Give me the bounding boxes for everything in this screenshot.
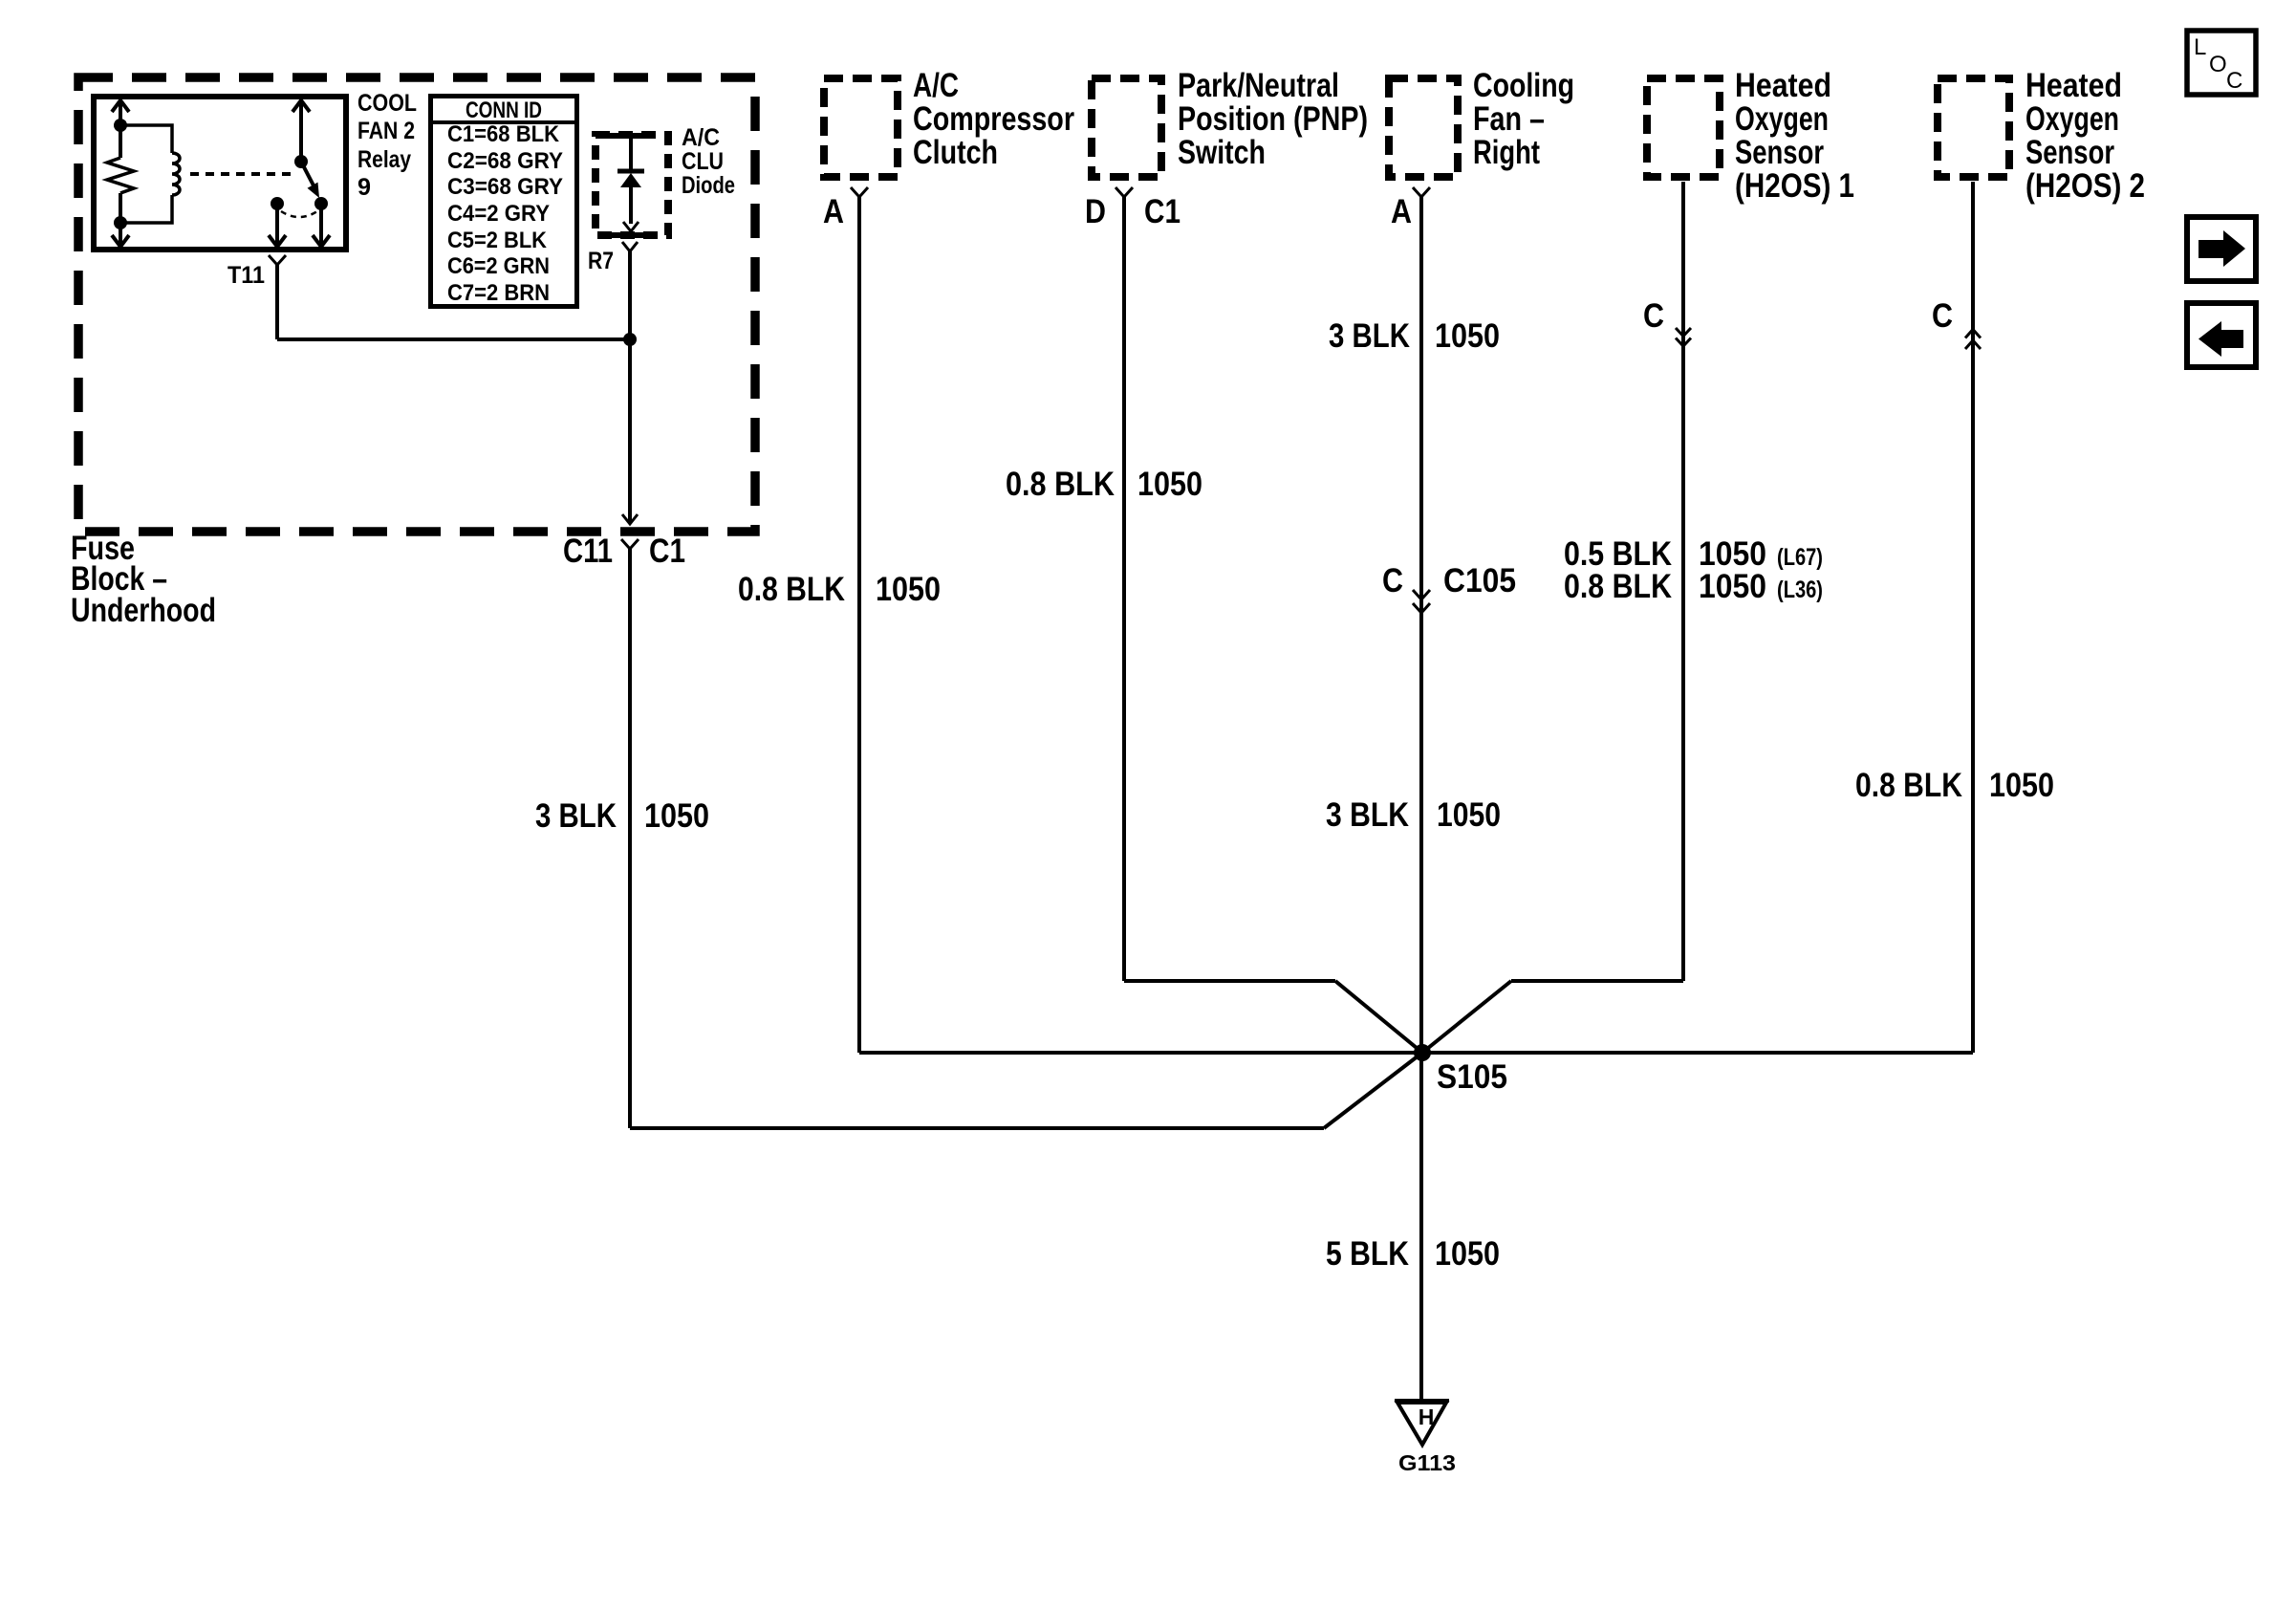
svg-text:0.8 BLK: 0.8 BLK <box>1564 568 1672 605</box>
svg-text:Relay: Relay <box>357 146 411 173</box>
resistor in relay <box>107 158 134 193</box>
connector C105 chevrons <box>1413 590 1430 613</box>
svg-text:Switch: Switch <box>1178 134 1266 171</box>
svg-text:3 BLK: 3 BLK <box>535 797 617 835</box>
connector A Y symbol cooling fan <box>1413 187 1430 197</box>
svg-text:D: D <box>1085 193 1106 230</box>
svg-text:C1=68 BLK: C1=68 BLK <box>447 121 560 147</box>
connector C11 Y symbol <box>621 539 639 549</box>
relay switch pivot dot <box>294 155 308 168</box>
svg-text:C2=68 GRY: C2=68 GRY <box>447 148 563 174</box>
svg-text:O: O <box>2209 52 2227 77</box>
svg-text:Cooling: Cooling <box>1473 67 1574 104</box>
svg-text:CLU: CLU <box>682 148 724 175</box>
svg-text:Sensor: Sensor <box>2025 134 2114 171</box>
wire R7 to fuse box exit <box>628 251 632 523</box>
svg-text:3 BLK: 3 BLK <box>1326 796 1409 834</box>
connector C chevrons H2OS2 <box>1965 330 1981 350</box>
wire fuse block down <box>628 549 632 1128</box>
diode CR: A/C CLU Diode <box>629 138 633 224</box>
svg-text:Oxygen: Oxygen <box>2025 100 2119 138</box>
wire H2OS2 down <box>1971 182 1975 1053</box>
A/C CLU diode dashed box <box>596 135 668 235</box>
relay switch contact dots <box>271 197 284 210</box>
fuse block underhood dashed box <box>78 77 755 532</box>
svg-text:C11: C11 <box>563 533 613 570</box>
svg-text:(L67): (L67) <box>1777 544 1823 571</box>
svg-text:A/C: A/C <box>682 124 720 151</box>
relay coil pin dots <box>114 119 127 132</box>
relay K: COOL FAN 2 Relay 9 box <box>94 97 346 250</box>
svg-text:(H2OS) 1: (H2OS) 1 <box>1735 167 1854 205</box>
wire T11 horizontal <box>277 337 630 341</box>
svg-text:H: H <box>1419 1404 1435 1429</box>
svg-text:Sensor: Sensor <box>1735 134 1824 171</box>
wire fuse diagonal to S105 <box>1324 1053 1422 1128</box>
cooling fan right dashed box <box>1389 78 1458 177</box>
PNP label <box>1178 67 1368 171</box>
wire cooling fan down to ground <box>1419 197 1423 1400</box>
svg-text:1050: 1050 <box>1435 317 1500 355</box>
A/C compressor clutch dashed box <box>824 78 898 177</box>
svg-text:C1: C1 <box>649 533 685 570</box>
wire H2OS1 horizontal <box>1511 979 1683 983</box>
svg-text:Heated: Heated <box>1735 67 1831 104</box>
diode top bar <box>609 133 654 139</box>
relay switch blade <box>301 162 314 187</box>
connector A Y symbol <box>851 187 868 197</box>
svg-text:G113: G113 <box>1398 1450 1456 1475</box>
svg-text:Position (PNP): Position (PNP) <box>1178 100 1368 138</box>
svg-text:Diode: Diode <box>682 172 735 199</box>
wire H2OS1 down <box>1681 182 1685 981</box>
svg-text:A: A <box>823 193 844 230</box>
relay coil pin wire <box>112 100 129 247</box>
wire PNP horizontal <box>1124 979 1335 983</box>
svg-text:C5=2 BLK: C5=2 BLK <box>447 228 548 253</box>
svg-text:Right: Right <box>1473 134 1540 171</box>
wire T11 down <box>275 265 279 339</box>
svg-text:COOL: COOL <box>357 90 417 117</box>
ground G113 symbol <box>1395 1399 1449 1403</box>
svg-text:A/C: A/C <box>913 67 959 104</box>
wire PNP diagonal to S105 <box>1335 981 1422 1053</box>
svg-text:CONN ID: CONN ID <box>466 98 542 123</box>
svg-text:Underhood: Underhood <box>71 592 216 629</box>
left arrow nav box <box>2187 303 2256 367</box>
svg-text:Oxygen: Oxygen <box>1735 100 1829 138</box>
svg-text:R7: R7 <box>588 248 614 274</box>
svg-text:L: L <box>2194 34 2206 60</box>
svg-text:C3=68 GRY: C3=68 GRY <box>447 174 563 200</box>
svg-text:C1: C1 <box>1144 193 1180 230</box>
svg-text:1050: 1050 <box>1137 466 1202 503</box>
H2OS2 dashed box <box>1938 78 2009 177</box>
svg-text:Park/Neutral: Park/Neutral <box>1178 67 1339 104</box>
svg-text:1050: 1050 <box>1699 568 1766 605</box>
wire fuse block horizontal <box>630 1126 1324 1130</box>
svg-text:A: A <box>1391 193 1412 230</box>
svg-text:S105: S105 <box>1437 1058 1507 1096</box>
relay contact pin wires <box>269 204 330 247</box>
svg-text:1050: 1050 <box>644 797 709 835</box>
svg-text:C6=2 GRN: C6=2 GRN <box>447 253 550 279</box>
svg-text:Clutch: Clutch <box>913 134 998 171</box>
right arrow nav box <box>2187 217 2256 281</box>
arrow into C11 <box>622 514 638 524</box>
svg-text:FAN 2: FAN 2 <box>357 118 415 144</box>
relay contact dashed arc <box>281 211 317 217</box>
LOC box <box>2187 31 2256 95</box>
svg-text:3 BLK: 3 BLK <box>1329 317 1410 355</box>
svg-text:1050: 1050 <box>1435 1235 1500 1273</box>
relay label <box>357 90 417 201</box>
svg-text:0.8 BLK: 0.8 BLK <box>1006 466 1115 503</box>
svg-text:1050: 1050 <box>876 571 941 608</box>
svg-text:0.8 BLK: 0.8 BLK <box>738 571 845 608</box>
diode label <box>682 124 735 199</box>
diode bottom bar <box>609 232 654 238</box>
svg-text:C4=2 GRY: C4=2 GRY <box>447 201 550 227</box>
svg-text:C7=2 BRN: C7=2 BRN <box>447 280 550 306</box>
svg-text:Compressor: Compressor <box>913 100 1074 138</box>
connector D Y symbol <box>1116 187 1133 197</box>
H2OS1 label <box>1735 67 1854 205</box>
svg-text:C: C <box>1643 297 1664 335</box>
junction dot T11/R7 <box>623 333 637 346</box>
svg-text:0.8 BLK: 0.8 BLK <box>1855 767 1962 804</box>
connector R7 Y symbol <box>622 242 638 251</box>
relay actuation dashed link <box>190 172 294 176</box>
svg-text:C: C <box>1382 562 1403 599</box>
wire A/C compressor down <box>857 197 861 1053</box>
svg-text:9: 9 <box>357 174 371 201</box>
splice S105 dot <box>1414 1044 1431 1061</box>
svg-text:5 BLK: 5 BLK <box>1326 1235 1409 1273</box>
svg-text:1050: 1050 <box>1989 767 2054 804</box>
relay coil (inductor) <box>120 125 172 223</box>
cooling fan label <box>1473 67 1574 171</box>
relay switch common pin <box>292 100 310 162</box>
svg-text:(H2OS) 2: (H2OS) 2 <box>2025 167 2145 205</box>
wire PNP down <box>1122 197 1126 981</box>
connector C chevrons H2OS1 <box>1676 328 1691 346</box>
PNP switch dashed box <box>1092 78 1161 177</box>
svg-text:T11: T11 <box>227 262 265 289</box>
svg-text:C105: C105 <box>1443 562 1516 599</box>
H2OS1 dashed box <box>1647 78 1720 177</box>
wire H2OS1 diagonal to S105 <box>1422 981 1511 1053</box>
wire main horizontal through S105 <box>859 1051 1973 1055</box>
svg-text:Heated: Heated <box>2025 67 2122 104</box>
CONN ID table <box>431 97 577 307</box>
svg-text:1050: 1050 <box>1437 796 1501 834</box>
svg-text:(L36): (L36) <box>1777 577 1823 603</box>
svg-text:Fan –: Fan – <box>1473 100 1545 138</box>
svg-text:C: C <box>2226 68 2242 94</box>
A/C compressor clutch label <box>913 67 1074 171</box>
fuse block label <box>71 530 216 629</box>
connector T11 Y symbol <box>269 255 286 265</box>
H2OS2 label <box>2025 67 2145 205</box>
svg-text:C: C <box>1932 297 1953 335</box>
